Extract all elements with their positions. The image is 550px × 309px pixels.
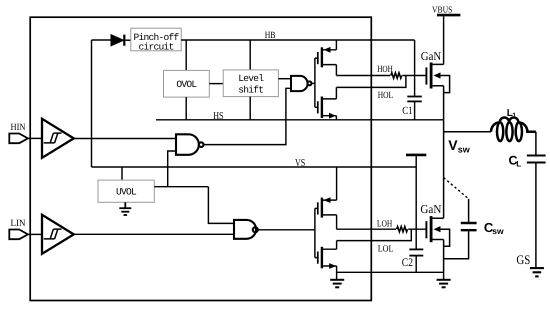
ground right — [437, 280, 451, 288]
transistor Q4 GaN low — [426, 216, 449, 272]
svg-text:C2: C2 — [402, 257, 413, 269]
node Vsw label — [448, 137, 471, 155]
resistor R2 — [397, 227, 408, 232]
svg-text:UVOL: UVOL — [116, 187, 137, 198]
wire U5 output to driver gates — [258, 229, 315, 231]
schmitt buffer U1 — [42, 119, 74, 158]
wire VS vertical riser — [91, 40, 93, 167]
wire HB to C1 — [414, 40, 416, 96]
transistor Q5 driver pmos low — [318, 167, 337, 229]
svg-text:circuit: circuit — [138, 41, 173, 52]
wire stub to right ground — [443, 272, 445, 279]
wire HS rail — [156, 119, 444, 121]
svg-text:LOL: LOL — [378, 244, 394, 254]
svg-text:L: L — [516, 159, 521, 168]
svg-text:LIN: LIN — [11, 219, 26, 229]
svg-text:sw: sw — [492, 226, 504, 236]
VDD rail bar low side — [406, 154, 426, 157]
wire LOL — [337, 229, 412, 240]
transistor Q3 GaN high — [426, 63, 449, 120]
wire LIN pin to buffer — [28, 233, 42, 235]
ground under UVOL — [119, 202, 131, 215]
UVOL block — [98, 180, 154, 202]
wire driver1 gate bus — [315, 58, 317, 107]
wire VS rail — [92, 166, 417, 168]
capacitor CL — [527, 156, 546, 163]
wire level shift to NAND U4 — [278, 78, 291, 80]
wire ground bus — [337, 271, 444, 273]
transistor Q1 driver pmos high — [318, 40, 337, 76]
NAND gate U4 — [291, 76, 312, 91]
svg-text:HOH: HOH — [377, 65, 393, 75]
svg-text:V: V — [448, 137, 458, 153]
svg-text:sw: sw — [458, 145, 471, 155]
wire VBUS to Q3 drain — [443, 16, 445, 64]
svg-text:HB: HB — [265, 31, 276, 41]
capacitor Csw — [461, 223, 477, 230]
svg-text:GaN: GaN — [421, 49, 442, 63]
wire driver2 gate bus — [315, 208, 317, 257]
input pin HIN tag — [9, 134, 28, 144]
pinch-off circuit block — [131, 28, 181, 52]
OVOL block — [164, 70, 210, 97]
transistor Q2 driver nmos high — [318, 87, 337, 119]
wire HOH — [336, 75, 390, 77]
wire dashed Vsw to Csw — [444, 178, 469, 199]
wire Vsw to L1 — [444, 131, 491, 133]
input pin LIN tag — [9, 230, 28, 240]
wire UVOL output — [154, 186, 208, 188]
wire Csw top lead — [468, 199, 470, 222]
wire UVOL line to NAND U5 input — [208, 187, 234, 224]
level shift block — [223, 70, 278, 97]
wire UVOL to NAND U3 input — [168, 151, 176, 187]
wire LOH — [337, 228, 396, 230]
wire U3 output to U4 input — [204, 88, 292, 144]
svg-text:GaN: GaN — [420, 202, 441, 216]
wire HB to OVOL — [185, 40, 187, 70]
wire U2 output to NAND U5 — [74, 233, 234, 235]
node L1 label — [507, 108, 517, 120]
svg-text:C1: C1 — [402, 105, 412, 117]
resistor R1 — [391, 73, 402, 78]
wire U4 output to driver gates — [312, 82, 315, 84]
svg-text:Level: Level — [238, 73, 264, 84]
diode D1 — [111, 35, 131, 46]
svg-text:HIN: HIN — [11, 123, 26, 133]
wire HB to level shift — [249, 40, 251, 70]
wire rail bar to VS and C2 — [415, 156, 417, 249]
wire level shift to HS — [249, 97, 251, 120]
ground GS — [530, 268, 544, 276]
VBUS rail bar — [437, 14, 460, 17]
wire HB rail — [181, 39, 414, 41]
svg-text:VBUS: VBUS — [432, 4, 452, 14]
svg-text:shift: shift — [238, 85, 263, 96]
ground low driver — [330, 280, 344, 288]
schmitt buffer U2 — [42, 215, 74, 254]
wire R1 to gate — [402, 75, 425, 77]
svg-text:LOH: LOH — [377, 220, 393, 230]
wire L1 to CL — [535, 132, 537, 155]
inductor L1 — [491, 117, 536, 141]
wire R2 to gate — [408, 228, 425, 230]
wire VS to UVOL — [121, 167, 123, 180]
wire diode anode — [92, 39, 112, 41]
NAND gate U5 — [234, 220, 258, 239]
svg-text:GS: GS — [516, 252, 530, 267]
wire Csw bottom lead — [444, 231, 469, 258]
svg-text:HS: HS — [213, 111, 223, 122]
IC boundary box — [30, 17, 371, 300]
wire Vsw vertical — [443, 120, 445, 218]
capacitor C2 — [409, 249, 423, 272]
wire CL to GS ground — [535, 164, 537, 268]
node Csw label — [484, 220, 504, 236]
wire OVOL to level shift — [209, 83, 223, 85]
svg-text:OVOL: OVOL — [176, 79, 197, 90]
svg-text:VS: VS — [295, 158, 305, 169]
wire HIN pin to buffer — [28, 137, 42, 139]
node CL label — [509, 154, 522, 169]
capacitor C1 — [407, 97, 422, 120]
NAND gate U3 — [176, 134, 204, 155]
transistor Q6 driver nmos low — [318, 241, 337, 280]
wire OVOL to HS — [185, 97, 187, 120]
wire HOL — [336, 76, 406, 88]
svg-text:HOL: HOL — [378, 91, 394, 101]
wire U1 output to NAND U3 — [74, 138, 176, 140]
